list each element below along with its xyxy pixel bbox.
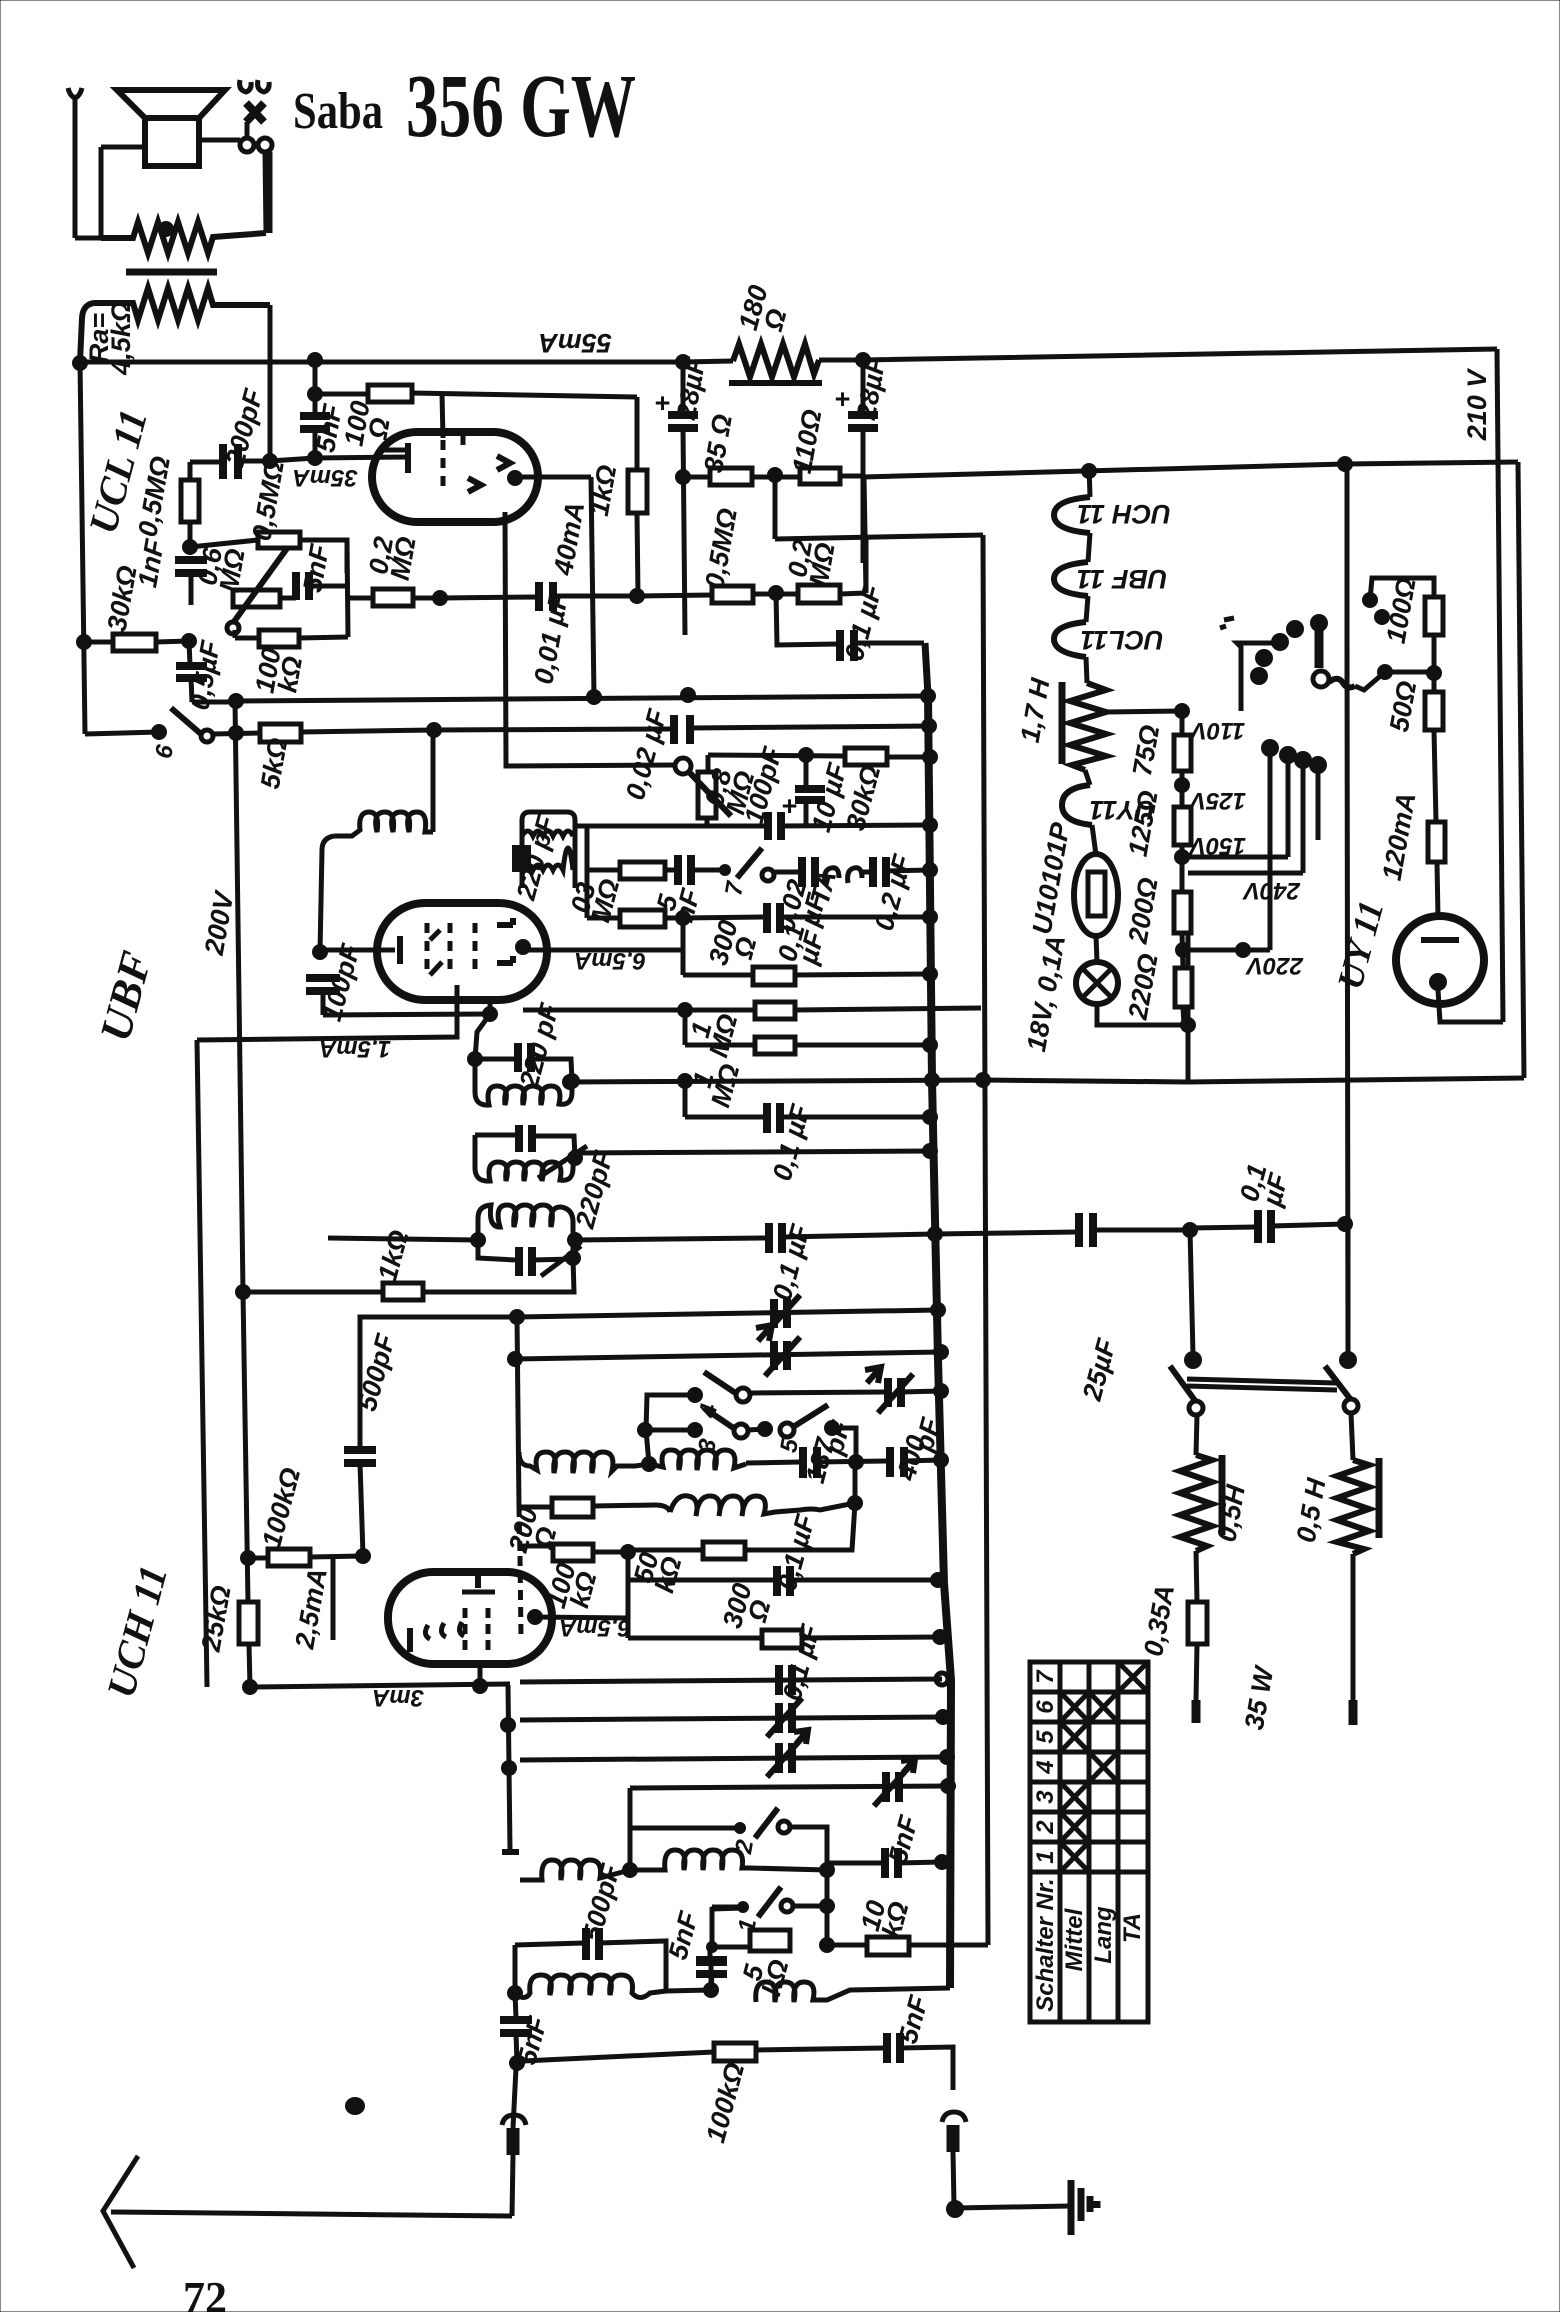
svg-text:MΩ: MΩ — [705, 1061, 745, 1111]
svg-text:200V: 200V — [199, 888, 240, 958]
svg-text:5nF: 5nF — [893, 1991, 935, 2047]
svg-text:Lang: Lang — [1090, 1906, 1117, 1964]
svg-text:500pF: 500pF — [577, 1860, 627, 1945]
svg-text:25µF: 25µF — [1077, 1334, 1123, 1404]
svg-text:30kΩ: 30kΩ — [102, 563, 143, 633]
svg-text:MΩ: MΩ — [214, 546, 251, 594]
svg-text:UY11: UY11 — [1089, 795, 1155, 825]
svg-text:3: 3 — [1032, 1790, 1059, 1804]
svg-text:125V: 125V — [1188, 787, 1246, 814]
svg-text:356 GW: 356 GW — [406, 57, 636, 156]
svg-text:40mA: 40mA — [548, 500, 590, 579]
svg-text:2: 2 — [730, 1837, 759, 1856]
svg-text:100Ω: 100Ω — [1381, 575, 1422, 645]
svg-text:1: 1 — [1032, 1850, 1059, 1863]
svg-text:UBF 11: UBF 11 — [1076, 564, 1167, 594]
svg-text:210 V: 210 V — [1462, 368, 1492, 442]
svg-text:6,5mA: 6,5mA — [574, 947, 646, 974]
svg-text:200pF: 200pF — [219, 385, 269, 471]
svg-text:MΩ: MΩ — [804, 540, 841, 588]
svg-text:MΩ: MΩ — [385, 534, 422, 582]
svg-text:0,35A: 0,35A — [1138, 1582, 1180, 1658]
svg-text:75Ω: 75Ω — [1127, 723, 1165, 779]
svg-text:18V, 0,1A: 18V, 0,1A — [1021, 933, 1071, 1054]
svg-text:220V: 220V — [1245, 952, 1304, 979]
svg-text:TA: TA — [1119, 1913, 1146, 1943]
svg-text:UY 11: UY 11 — [1329, 896, 1391, 993]
svg-text:U10101P: U10101P — [1027, 819, 1076, 936]
svg-text:4,5kΩ: 4,5kΩ — [106, 301, 136, 376]
svg-text:2,5mA: 2,5mA — [289, 1566, 333, 1652]
svg-text:72: 72 — [183, 2273, 227, 2312]
svg-text:0,1 µF: 0,1 µF — [767, 1100, 816, 1184]
svg-text:25kΩ: 25kΩ — [195, 1583, 236, 1654]
svg-text:+: + — [834, 384, 850, 414]
svg-text:UCL11: UCL11 — [1080, 625, 1164, 655]
svg-text:kΩ: kΩ — [272, 654, 308, 695]
svg-text:Mittel: Mittel — [1061, 1907, 1088, 1971]
svg-text:3mA: 3mA — [372, 1684, 424, 1711]
svg-text:55mA: 55mA — [538, 328, 612, 358]
svg-text:0,1 µF: 0,1 µF — [767, 1220, 816, 1304]
svg-text:UCH 11: UCH 11 — [1077, 499, 1171, 529]
svg-text:35mA: 35mA — [292, 464, 357, 491]
svg-text:5: 5 — [1032, 1730, 1059, 1744]
svg-text:100kΩ: 100kΩ — [256, 1465, 306, 1551]
svg-text:220Ω: 220Ω — [1122, 951, 1163, 1022]
svg-text:MΩ: MΩ — [703, 1011, 743, 1061]
svg-text:1,5mA: 1,5mA — [319, 1035, 391, 1062]
svg-text:Saba: Saba — [293, 83, 383, 140]
svg-text:0,02 µF: 0,02 µF — [620, 705, 673, 803]
svg-text:4: 4 — [1032, 1760, 1059, 1774]
svg-text:6,5mA: 6,5mA — [559, 1614, 631, 1641]
svg-text:200Ω: 200Ω — [1122, 875, 1163, 946]
svg-text:110V: 110V — [1189, 717, 1245, 744]
svg-text:0,5H: 0,5H — [1211, 1482, 1251, 1544]
svg-text:0,5 H: 0,5 H — [1291, 1476, 1332, 1545]
svg-text:0,5MΩ: 0,5MΩ — [699, 506, 743, 591]
svg-text:2: 2 — [1032, 1820, 1059, 1835]
svg-text:5nF: 5nF — [883, 1811, 925, 1867]
svg-text:+: + — [654, 388, 670, 418]
svg-text:5nF: 5nF — [663, 1907, 705, 1963]
svg-text:Schalter Nr.: Schalter Nr. — [1032, 1878, 1059, 2011]
svg-text:35 W: 35 W — [1239, 1662, 1280, 1732]
svg-text:pF: pF — [818, 1416, 856, 1458]
svg-text:6: 6 — [150, 742, 179, 760]
svg-text:1,7 H: 1,7 H — [1015, 676, 1056, 745]
svg-text:1kΩ: 1kΩ — [372, 1227, 414, 1284]
svg-text:50Ω: 50Ω — [1384, 679, 1422, 735]
svg-text:Ω: Ω — [758, 306, 793, 335]
svg-text:7: 7 — [720, 878, 749, 897]
svg-text:6: 6 — [1032, 1700, 1059, 1714]
svg-text:UCH 11: UCH 11 — [98, 1561, 176, 1703]
svg-text:UBF: UBF — [91, 946, 162, 1046]
svg-text:110Ω: 110Ω — [787, 407, 828, 475]
svg-text:7: 7 — [1032, 1669, 1059, 1684]
svg-text:35 Ω: 35 Ω — [698, 412, 738, 475]
svg-text:100kΩ: 100kΩ — [700, 2060, 750, 2146]
svg-text:120mA: 120mA — [1377, 790, 1422, 882]
